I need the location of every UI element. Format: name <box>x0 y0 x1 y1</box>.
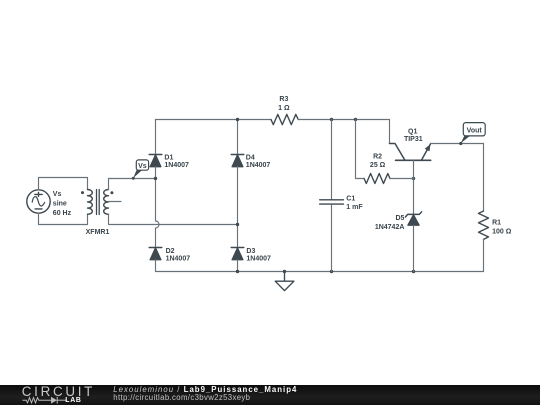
wire: right bridge branch lower <box>237 260 239 272</box>
wire: Q1 base to D5 <box>413 160 415 214</box>
svg-text:25 Ω: 25 Ω <box>370 162 386 169</box>
svg-text:XFMR1: XFMR1 <box>86 229 110 236</box>
svg-text:1 Ω: 1 Ω <box>278 105 290 112</box>
wire: R1 bottom lead <box>483 239 485 271</box>
node: junction AC input at right branch <box>236 223 239 226</box>
diode D2 <box>149 248 162 260</box>
wire: D5 to ground rail <box>413 225 415 271</box>
svg-text:R3: R3 <box>279 96 288 103</box>
svg-text:R1: R1 <box>492 220 501 227</box>
svg-text:TIP31: TIP31 <box>404 136 423 143</box>
svg-text:1N4007: 1N4007 <box>166 256 191 263</box>
svg-text:Vout: Vout <box>467 127 483 134</box>
transformer XFMR1 primary phase dot <box>81 191 84 194</box>
footer line 1: author / title <box>113 385 297 394</box>
resistor R3 <box>271 114 298 124</box>
svg-text:D2: D2 <box>166 248 175 255</box>
svg-text:1N4007: 1N4007 <box>246 256 271 263</box>
transformer XFMR1 primary winding <box>88 190 93 215</box>
node: junction secondary top at left branch <box>154 177 157 180</box>
CircuitLab logo squiggle resistor and diode <box>22 396 70 405</box>
transformer XFMR1 core <box>97 190 100 215</box>
wire: right bridge branch upper <box>237 120 239 155</box>
node flag Vout probe <box>459 123 485 145</box>
transformer XFMR1 center tap stub <box>109 201 122 203</box>
resistor R1 <box>479 211 489 239</box>
node: junction dot R2 branch top <box>354 118 357 121</box>
node: junction D3 bottom rail <box>236 270 239 273</box>
footer bar <box>0 385 540 405</box>
wire: C1 bottom lead <box>331 205 333 272</box>
wire: primary loop bottom <box>39 213 88 224</box>
diode D1 <box>149 155 162 167</box>
diode D3 <box>231 248 244 260</box>
wire: C1 top lead <box>331 120 333 200</box>
wire: R2 branch from top rail <box>356 120 365 179</box>
wire: top rail left segment <box>156 119 272 121</box>
node: junction base of Q1 R2 D5 <box>412 177 415 180</box>
svg-text:1 mF: 1 mF <box>346 204 363 211</box>
svg-text:C1: C1 <box>346 196 355 203</box>
svg-text:100 Ω: 100 Ω <box>492 228 512 235</box>
wire: left bridge branch lower <box>155 260 157 272</box>
ground symbol <box>275 272 294 291</box>
svg-text:Vs: Vs <box>53 191 62 198</box>
wire: emitter to R1 top <box>431 144 484 212</box>
wire: left bridge branch middle with hop <box>156 167 160 248</box>
node: junction D5 bottom rail <box>412 270 415 273</box>
wire: secondary bottom AC input to right branch <box>109 214 238 224</box>
wire: top rail right segment to collector <box>298 120 389 144</box>
svg-text:1N4742A: 1N4742A <box>375 224 405 231</box>
svg-text:D5: D5 <box>395 215 404 222</box>
resistor R2 <box>364 174 390 184</box>
wire: bottom ground rail <box>156 271 484 273</box>
transistor Q1 TIP31 <box>390 144 431 161</box>
zener diode D5 1N4742A <box>405 212 421 225</box>
svg-text:D1: D1 <box>164 154 173 161</box>
svg-text:D4: D4 <box>246 154 255 161</box>
transformer XFMR1 secondary winding <box>104 190 109 215</box>
svg-text:1N4007: 1N4007 <box>246 162 271 169</box>
wire: left bridge branch upper <box>155 120 157 155</box>
svg-text:1N4007: 1N4007 <box>164 162 189 169</box>
wire: primary loop top <box>39 178 88 190</box>
transformer XFMR1 secondary phase dot <box>110 191 113 194</box>
wire: secondary top to bridge <box>109 179 156 190</box>
wire: right bridge branch middle <box>237 167 239 248</box>
footer line 2: url <box>113 393 250 402</box>
node: junction C1 bottom rail <box>330 270 333 273</box>
node: junction ground rail <box>283 270 286 273</box>
CircuitLab logo text LAB <box>65 397 81 404</box>
diode D4 <box>231 155 244 167</box>
svg-text:Q1: Q1 <box>408 129 417 136</box>
wire: R2 to base node <box>390 178 414 180</box>
svg-text:D3: D3 <box>246 248 255 255</box>
capacitor C1 <box>320 200 344 204</box>
node: junction dot D4 branch top <box>236 118 239 121</box>
svg-text:Vs: Vs <box>138 163 147 170</box>
svg-text:R2: R2 <box>373 153 382 160</box>
CircuitLab logo text CIRCUIT <box>22 384 95 399</box>
node: junction dot C1 branch top <box>330 118 333 121</box>
svg-text:sine: sine <box>53 200 67 207</box>
node flag Vs probe <box>132 160 149 180</box>
svg-text:60 Hz: 60 Hz <box>53 210 72 217</box>
voltage source VS circle <box>27 190 50 213</box>
